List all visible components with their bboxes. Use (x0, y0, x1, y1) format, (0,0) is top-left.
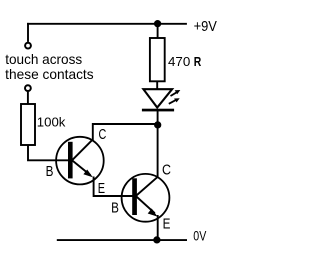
svg-text:470: 470 (168, 54, 190, 69)
svg-text:touch across: touch across (5, 52, 82, 67)
wire LED to junction (157, 111, 159, 124)
0V rail (57, 239, 187, 241)
wire junction to Q2 collector (157, 124, 159, 178)
svg-text:C: C (99, 127, 107, 143)
contact 2 (25, 85, 31, 91)
junction dot on +9V rail (154, 20, 161, 27)
svg-text:E: E (163, 216, 171, 232)
junction dot on 0V rail (153, 236, 160, 243)
wire Q1 emitter to Q2 base (94, 177, 133, 197)
transistor Q1 circle (56, 137, 104, 185)
LED light arrow 2 (169, 99, 177, 103)
LED D1 triangle (143, 89, 172, 107)
Q2 collector stroke (136, 177, 158, 196)
svg-text:100k: 100k (37, 115, 66, 130)
Q2 emitter stroke (136, 196, 155, 213)
wire R2 to LED (156, 81, 158, 91)
Q1 emitter arrowhead (83, 170, 92, 178)
LED light arrow 1 (171, 92, 178, 96)
wire rail to contact 1 (27, 23, 29, 42)
wire Q1 collector to junction (93, 124, 158, 140)
svg-text:C: C (162, 162, 171, 178)
svg-text:0V: 0V (193, 228, 207, 244)
contact 1 (25, 43, 31, 49)
resistor R1 body (21, 104, 35, 145)
svg-text:R: R (194, 54, 202, 69)
LED light arrow 1 head (175, 90, 181, 94)
svg-text:+9V: +9V (194, 18, 217, 35)
Q1 collector stroke (72, 139, 93, 160)
junction dot at LED cathode (154, 121, 161, 128)
LED light arrow 2 head (174, 98, 180, 102)
Q2 base bar (132, 178, 137, 215)
Q2 emitter arrowhead (148, 209, 158, 217)
wire R1 to Q1 base (28, 145, 69, 161)
Q1 emitter stroke (72, 160, 91, 175)
wire Q2 emitter to 0V rail (157, 215, 159, 241)
wire rail to R2 (157, 23, 159, 39)
+9V rail (27, 23, 187, 25)
wire contact 2 to R1 (27, 92, 29, 105)
Q1 base bar (68, 142, 73, 179)
svg-text:these contacts: these contacts (5, 67, 94, 82)
svg-text:B: B (46, 164, 54, 180)
resistor R2 body (150, 38, 165, 81)
LED cathode bar (142, 109, 174, 112)
transistor Q2 circle (122, 174, 170, 222)
svg-text:B: B (111, 201, 119, 217)
svg-text:E: E (98, 181, 106, 197)
